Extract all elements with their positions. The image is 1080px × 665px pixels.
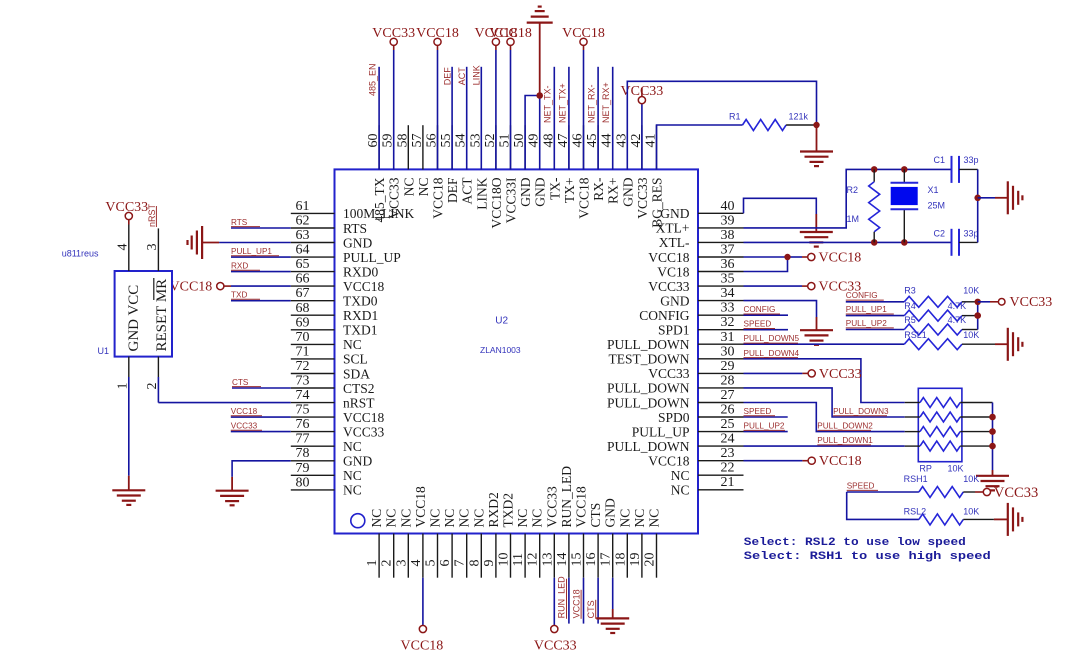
U1 pin 2 number [145,383,160,390]
pin 28 number [721,373,735,388]
pin 5 stub (bottom) [437,534,439,578]
pin 1 inner label NC [369,509,384,528]
wire net VCC18 (pin 75) [231,416,291,418]
pin 27 inner label PULL_DOWN [607,395,690,410]
svg-text:PULL_UP1: PULL_UP1 [846,305,887,314]
power label VCC18 [489,26,532,41]
svg-text:nRST: nRST [147,203,157,227]
pin 59 stub (top) [393,125,395,169]
U2 pin-1 indicator circle [351,514,365,528]
svg-text:21: 21 [721,475,735,490]
svg-text:Select: RSL2 to use low speed: Select: RSL2 to use low speed [744,537,966,549]
power label VCC18 [416,26,459,41]
wire net PULL_UP2 to R5 [846,329,905,331]
wire net PULL_UP1 (pin 64) [231,256,291,258]
svg-text:PULL_UP: PULL_UP [632,424,690,439]
pin 13 stub (bottom) [553,534,555,578]
svg-text:GND: GND [518,177,533,206]
U1 refdes label [98,346,110,356]
svg-text:VCC18: VCC18 [574,486,589,528]
pin 72 number [296,359,310,374]
pin 13 number [540,553,555,567]
junction bottom rail / X1 [901,239,908,246]
R5 right lead [962,329,978,331]
power port VCC33 (U1) [125,212,132,219]
svg-text:VCC18: VCC18 [819,251,862,266]
pin 41 number [644,134,659,148]
power port VCC33 (pin 35) [808,283,815,290]
net label PULL_UP1 (pin 64) [231,247,279,256]
pin 3 inner label NC [398,509,413,528]
pin 8 number [467,560,482,567]
ground (RP) [976,476,1009,491]
pin 7 stub (bottom) [466,534,468,578]
svg-text:RESET MR: RESET MR [154,279,170,352]
ground stem (top inverted ground) [539,23,541,96]
pin 51 inner label VCC33I [504,177,519,223]
pin 66 inner label VCC18 [343,279,385,294]
pin 48 number [541,134,556,148]
wire pin 17 GND [612,578,614,609]
wire pin 51 to VCC18 port [510,45,512,170]
svg-text:33p: 33p [964,155,979,165]
ground (pin 78) [216,491,249,506]
pin 59 number [381,134,396,148]
pin 53 stub (top) [480,125,482,169]
svg-text:3: 3 [145,244,160,251]
svg-text:VCC18: VCC18 [562,26,605,41]
svg-text:22: 22 [721,461,735,476]
pin 73 stub (left) [291,387,335,389]
net label PULL_UP1 (R4) [846,305,894,314]
pin 14 number [555,553,570,567]
pin 76 inner label VCC33 [343,424,385,439]
net label RUN_LED (pin 14) [557,576,567,619]
wire net CTS (pin 16) [597,578,599,624]
svg-text:VCC33: VCC33 [1010,295,1053,310]
pin 14 inner label RUN_LED [559,466,574,528]
pin 16 number [584,553,599,567]
R1 right lead [786,124,816,126]
RP element 2 left lead [905,416,920,418]
svg-text:C2: C2 [934,229,946,239]
pin 77 number [296,432,310,447]
net label VCC18 (pin 75) [231,407,262,416]
svg-text:RSL2: RSL2 [904,507,927,517]
svg-text:GND: GND [533,177,548,206]
pin 80 inner label NC [343,483,362,498]
svg-text:ACT: ACT [460,177,475,205]
svg-text:GND: GND [660,206,689,221]
pin 71 inner label SCL [343,352,368,367]
pin 61 stub (left) [291,212,335,214]
pin 69 number [296,315,310,330]
svg-text:PULL_DOWN4: PULL_DOWN4 [744,349,800,358]
svg-text:72: 72 [296,359,310,374]
svg-text:2: 2 [145,383,160,390]
wire net NET_RX- (pin 45) [597,67,599,170]
svg-text:VCC18: VCC18 [343,279,385,294]
pin 5 inner label NC [428,509,443,528]
junction top rail / R2 [871,166,878,173]
X1 refdes label [928,185,939,195]
wire net VCC18 (pin 15) [583,578,585,624]
pin 64 inner label PULL_UP [343,250,401,265]
net label PULL_DOWN1 [817,436,873,445]
pin 42 inner label VCC33 [635,177,650,219]
svg-text:1M: 1M [847,214,860,224]
net label nRST (U1) [147,203,157,227]
pin 26 inner label SPD0 [658,410,690,425]
pin 46 number [571,134,586,148]
pin 43 inner label GND [620,177,635,206]
power label VCC18 (pin 66) [170,280,213,295]
IC U2 ZLAN1003 body [335,169,699,533]
svg-text:11: 11 [511,553,526,566]
pin 75 stub (left) [291,416,335,418]
pin 17 number [599,553,614,567]
svg-text:CONFIG: CONFIG [744,305,776,314]
pin 35 stub (right) [698,285,744,287]
svg-text:RXD2: RXD2 [486,492,501,527]
pin 70 stub (left) [291,343,335,345]
ground (below R1) [800,152,833,167]
pin 57 inner label NC [416,178,431,197]
junction R3 node [975,299,981,305]
C2 value label 33p [964,229,979,239]
svg-text:NC: NC [398,509,413,528]
X1 bottom lead [903,209,905,242]
svg-text:VCC18: VCC18 [231,407,258,416]
net label RTS [231,218,260,227]
wire pin 78 GND [232,461,291,477]
svg-text:RSL1: RSL1 [904,330,927,340]
svg-text:u811reus: u811reus [62,249,99,259]
svg-text:65: 65 [296,257,310,272]
C1 right lead [959,168,978,170]
pin 10 inner label TXD2 [501,493,516,528]
pin 52 stub (top) [495,125,497,169]
svg-text:5: 5 [424,560,439,567]
wire pin 52 to VCC18 port [495,45,497,170]
RSH1 right lead [963,491,984,493]
pin 61 number [296,199,310,214]
pin 32 stub (right) [698,329,744,331]
svg-text:CTS: CTS [586,600,596,618]
pin 11 number [511,553,526,566]
wire net PULL_UP2 (pin 25) [744,431,788,433]
note line 2 [744,551,991,563]
pin 2 inner label NC [384,509,399,528]
wire pin 36 joins pin 37 [744,257,788,272]
ground stem (pin 17) [612,609,614,618]
pin 39 number [721,213,735,228]
pin 32 inner label SPD1 [658,323,690,338]
svg-text:58: 58 [395,134,410,148]
svg-text:18: 18 [613,553,628,567]
pin 51 number [498,134,513,148]
pin 62 inner label RTS [343,221,367,236]
svg-text:4: 4 [409,560,424,567]
svg-text:10K: 10K [963,474,979,484]
capacitor C1 [952,156,960,183]
svg-text:RX+: RX+ [606,178,621,204]
svg-text:DEF: DEF [443,67,453,86]
net label CTS (pin 16) [586,600,596,619]
wire pin 40 GND [744,198,817,214]
svg-text:PULL_DOWN: PULL_DOWN [607,395,690,410]
pin 44 number [600,134,615,148]
svg-text:68: 68 [296,301,310,316]
svg-text:NC: NC [457,509,472,528]
RP resistor element 4 [920,441,960,451]
svg-text:30: 30 [721,344,735,359]
svg-text:R3: R3 [904,286,916,296]
pin 1 number [365,560,380,567]
U1 inner labels RESET MR [154,279,170,352]
svg-text:74: 74 [296,388,310,403]
pin 22 inner label NC [671,468,690,483]
svg-text:CTS: CTS [588,503,603,528]
RSL2 value label 10K [963,507,979,517]
svg-text:LINK: LINK [472,65,482,85]
junction pins 49/50 ground [536,92,543,99]
pin 11 stub (bottom) [524,534,526,578]
svg-text:GND: GND [660,293,689,308]
wire pin 4 to VCC18 port [422,578,424,626]
power label VCC18 (pin 37) [819,251,862,266]
power label VCC18 (pin 4) [401,639,444,654]
wire crystal right vertical [977,169,979,242]
svg-text:67: 67 [296,286,310,301]
svg-text:10K: 10K [948,464,964,474]
wire net LINK (pin 53) [480,67,482,170]
pin 30 inner label TEST_DOWN [609,352,690,367]
pin 21 stub (right) [698,489,744,491]
svg-text:R4: R4 [904,301,916,311]
wire net DEF (pin 55) [451,67,453,170]
svg-text:25: 25 [721,417,735,432]
net label CTS [232,378,261,387]
RSL2 refdes label [904,507,927,517]
RSL2 right lead [963,518,1008,520]
ground (pin 40) [800,232,833,247]
pin 63 number [296,228,310,243]
pin 71 stub (left) [291,358,335,360]
pin 7 inner label NC [457,509,472,528]
svg-text:VCC33: VCC33 [544,486,559,528]
svg-text:LINK: LINK [474,177,489,209]
pin 25 number [721,417,735,432]
pin 18 stub (bottom) [626,534,628,578]
wire crystal ground lead [978,197,1008,199]
pin 15 stub (bottom) [583,534,585,578]
svg-text:NC: NC [343,483,362,498]
svg-text:VCC18O: VCC18O [489,177,504,228]
pin 52 number [483,134,498,148]
svg-text:TXD: TXD [231,291,247,300]
RSL1 value label 10K [963,330,979,340]
capacitor C2 [952,229,960,256]
pin 68 inner label RXD1 [343,308,378,323]
pin 80 stub (left) [291,489,335,491]
note line 1 [744,537,966,549]
pin 12 inner label NC [530,509,545,528]
power port VCC33 (pin 42) [638,97,645,104]
pin 78 stub (left) [291,460,335,462]
pin 12 number [526,553,541,567]
svg-text:15: 15 [570,553,585,567]
pin 44 stub (top) [612,125,614,169]
svg-text:121k: 121k [789,112,809,122]
pin 36 stub (right) [698,271,744,273]
svg-text:PULL_DOWN2: PULL_DOWN2 [817,422,873,431]
wire net PULL_UP1 to R4 [846,315,905,317]
wire pin 35 VCC33 [744,285,809,287]
pin 56 stub (top) [437,125,439,169]
resistor RSL2 [919,514,963,525]
wire pin 41 BG_RES to R1 [657,125,743,169]
pin 28 stub (right) [698,387,744,389]
svg-text:71: 71 [296,344,310,359]
svg-text:NC: NC [442,509,457,528]
C2 refdes label [934,229,946,239]
svg-text:TX+: TX+ [562,178,577,204]
wire pin 23 VCC18 [744,460,809,462]
pin 46 inner label VCC18 [577,177,592,219]
pin 56 inner label VCC18 [431,177,446,219]
pin 55 stub (top) [451,125,453,169]
wire pin 66 VCC18 [223,285,290,287]
pin 34 stub (right) [698,300,744,302]
svg-text:TXD1: TXD1 [343,323,378,338]
svg-text:RTS: RTS [343,221,367,236]
svg-text:24: 24 [721,432,735,447]
ground stem (RP) [992,470,994,476]
pin 6 number [438,560,453,567]
wire net PULL_DOWN1 (pin 24) to RP [744,445,905,447]
svg-text:PULL_DOWN1: PULL_DOWN1 [817,436,873,445]
ground (inverted, pins 49/50) [527,7,553,23]
svg-text:TXD0: TXD0 [343,294,378,309]
wire pin 42 to VCC33 port [641,88,643,169]
pin 31 number [721,330,735,345]
net label NET_TX+ [557,83,567,123]
RSL1 refdes label [904,330,927,340]
pin 38 number [721,228,735,243]
pin 58 inner label NC [401,178,416,197]
junction top rail / X1 [901,166,908,173]
pin 31 stub (right) [698,343,744,345]
wire net TXD (pin 67) [231,300,291,302]
resistor R4 [904,310,962,321]
svg-text:10K: 10K [963,330,979,340]
pin 76 stub (left) [291,431,335,433]
wire net SPEED to RSH1/RSL2 [847,492,919,519]
pin 41 inner label BG_RES [650,178,665,228]
pin 60 number [366,134,381,148]
svg-text:R5: R5 [904,315,916,325]
pin 47 stub (top) [568,125,570,169]
pin 54 stub (top) [466,125,468,169]
svg-text:70: 70 [296,330,310,345]
svg-text:RUN_LED: RUN_LED [557,576,567,619]
pin 67 stub (left) [291,300,335,302]
svg-text:VCC33: VCC33 [343,424,385,439]
svg-text:GND VCC: GND VCC [126,285,142,352]
net label CONFIG (R3) [846,291,884,300]
pin 78 number [296,446,310,461]
net label PULL_DOWN4 [744,349,800,358]
pin 66 stub (left) [291,285,335,287]
pin 35 number [721,272,735,287]
pin 24 inner label PULL_DOWN [607,439,690,454]
svg-text:NC: NC [671,483,690,498]
pin 33 inner label CONFIG [639,308,690,323]
svg-text:VCC18: VCC18 [819,454,862,469]
wire R3 node to VCC33 port [978,301,999,303]
wire net ACT (pin 54) [466,67,468,170]
svg-text:6: 6 [438,560,453,567]
wire pin 39 XTL+ to crystal top rail [744,169,875,228]
pin 14 stub (bottom) [568,534,570,578]
svg-text:SPEED: SPEED [847,481,875,490]
pin 6 stub (bottom) [451,534,453,578]
svg-text:10: 10 [497,553,512,567]
pin 67 inner label TXD0 [343,294,378,309]
net label RXD [231,261,260,270]
svg-text:17: 17 [599,553,614,567]
power label VCC33 (R3) [1010,295,1053,310]
crystal X1 [891,183,919,210]
svg-text:CONFIG: CONFIG [846,291,878,300]
svg-text:77: 77 [296,432,310,447]
svg-text:VCC33: VCC33 [648,279,690,294]
pin 39 inner label XTL+ [656,221,690,236]
pin 74 inner label nRST [343,395,375,410]
power port VCC18 (pin 51) [507,38,514,45]
resistor R3 [904,296,962,307]
svg-text:XTL-: XTL- [659,235,690,250]
pin 26 stub (right) [698,416,744,418]
RP element 4 left lead [905,445,920,447]
pin 76 number [296,417,310,432]
pin 54 inner label ACT [460,177,475,205]
pin 18 number [613,553,628,567]
net label PULL_DOWN2 [817,422,873,431]
svg-text:R2: R2 [847,185,859,195]
power label VCC18 [562,26,605,41]
svg-text:NC: NC [401,178,416,197]
wire crystal top rail [874,168,951,170]
net label PULL_DOWN3 [833,407,889,416]
svg-text:VCC33: VCC33 [387,177,402,219]
net label PULL_UP2 (R5) [846,319,894,328]
power port VCC33 (R3) [998,299,1005,306]
pin 69 stub (left) [291,329,335,331]
pin 24 stub (right) [698,445,744,447]
ground stem (pin 40) [815,214,817,232]
svg-text:62: 62 [296,214,310,229]
svg-text:16: 16 [584,553,599,567]
pin 72 inner label SDA [343,366,370,381]
pin 46 stub (top) [583,125,585,169]
R2 value label 1M [847,214,860,224]
pin 50 inner label GND [518,177,533,206]
U1 pin 4 wire [128,219,130,271]
pin 40 inner label GND [660,206,689,221]
svg-text:CTS: CTS [232,378,249,387]
